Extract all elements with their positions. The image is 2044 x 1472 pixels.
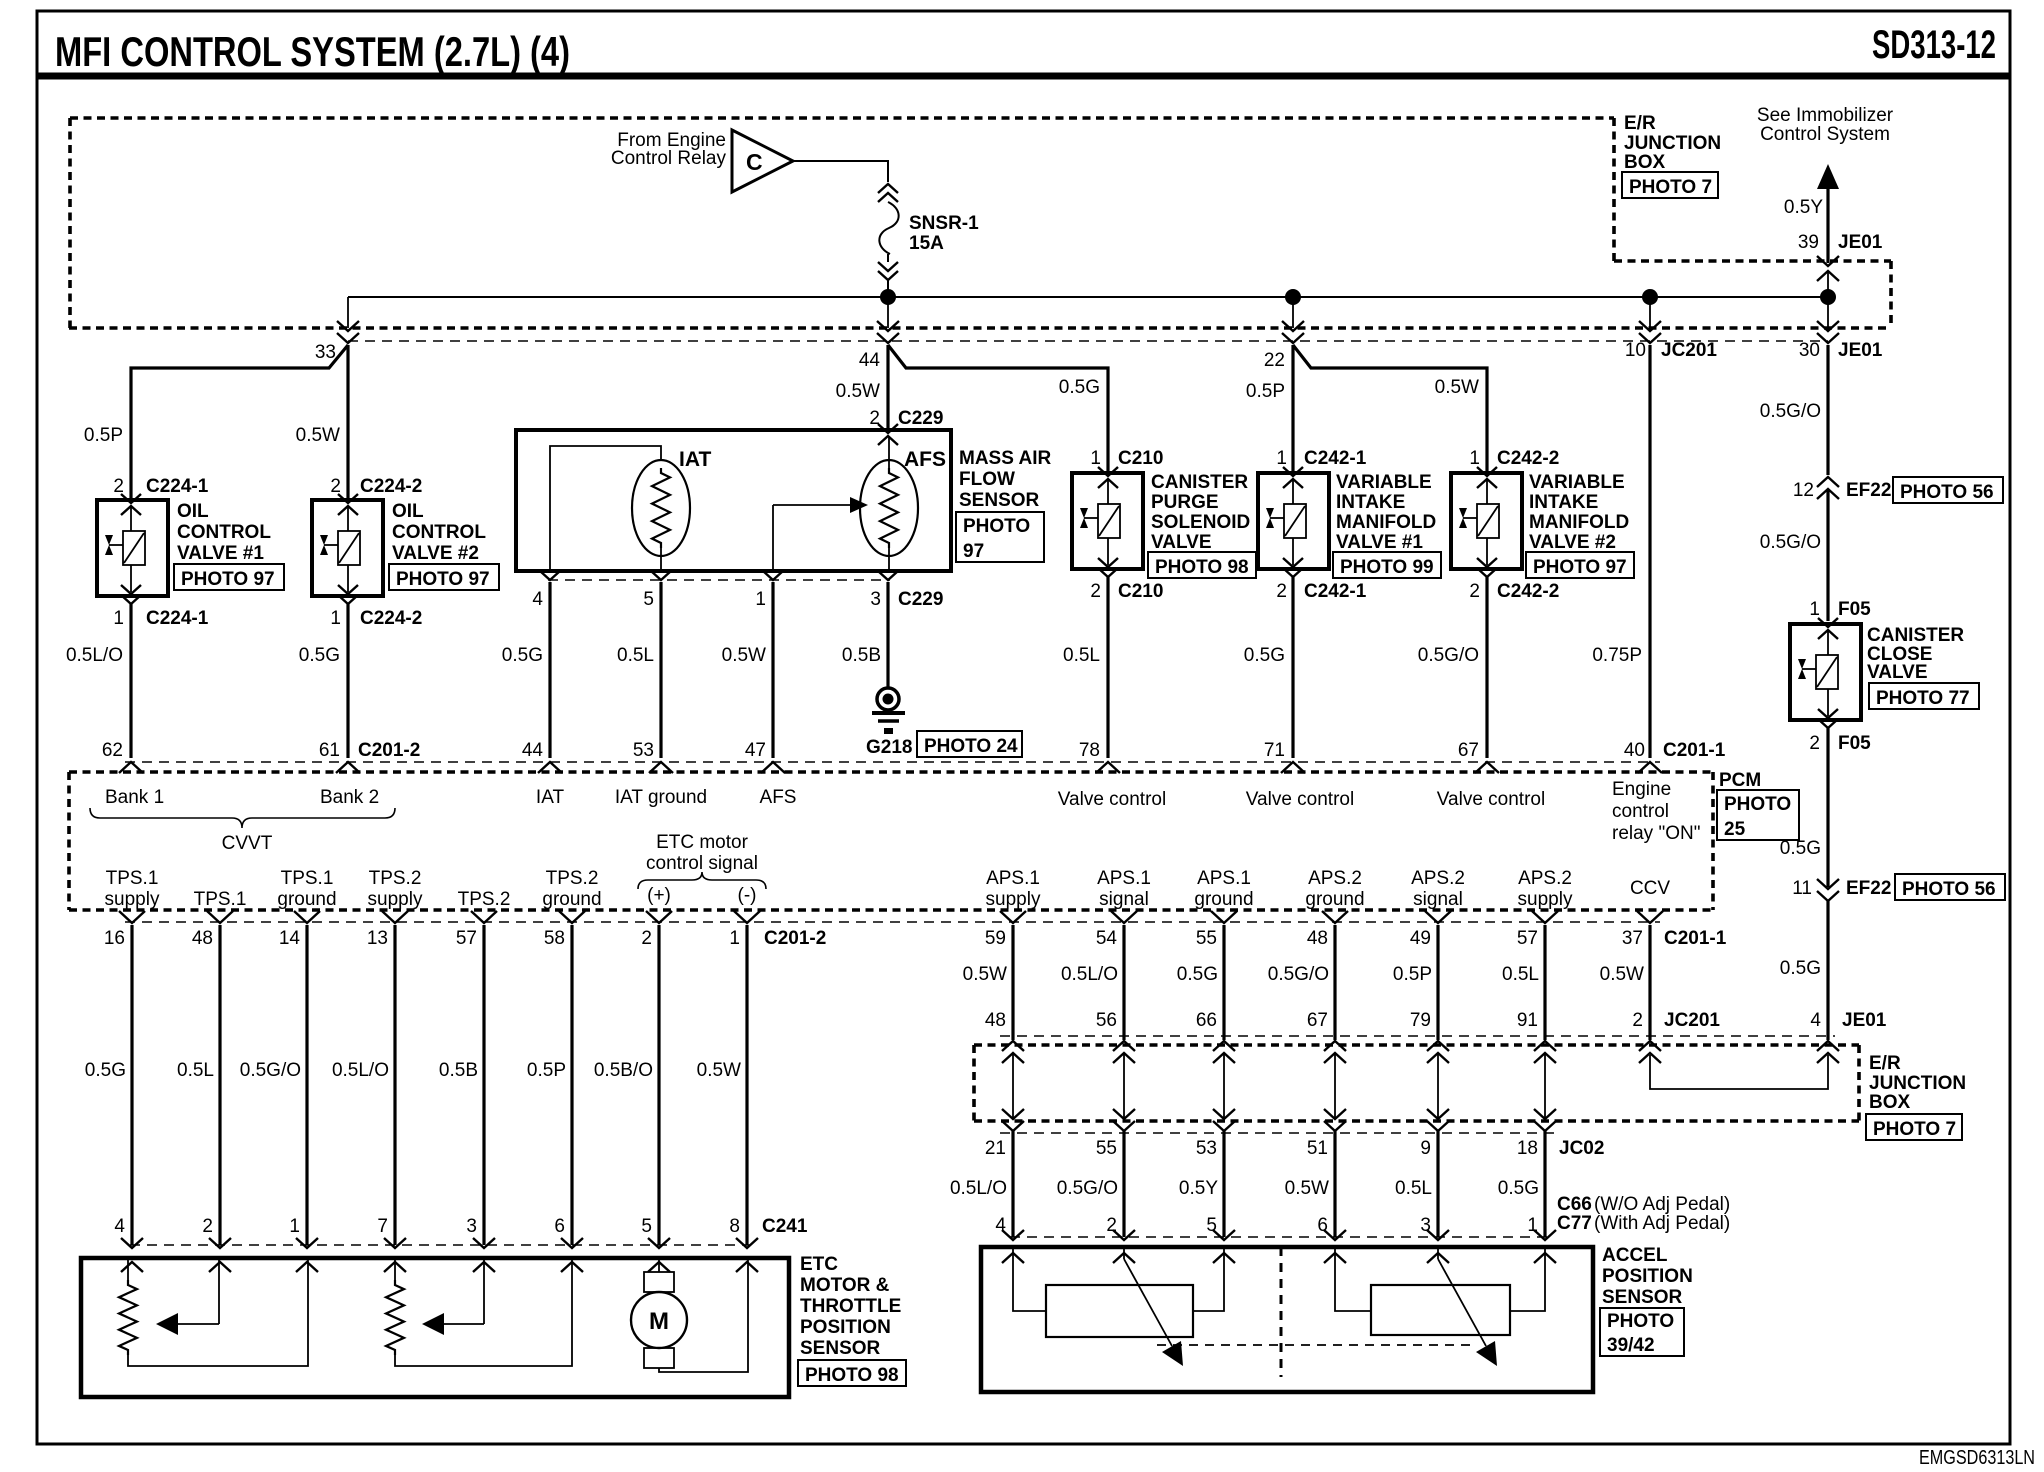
wire bus drop 33	[347, 297, 349, 328]
svg-text:79: 79	[1410, 1010, 1431, 1031]
connector EF22 pin11	[1817, 879, 1839, 889]
svg-text:0.5W: 0.5W	[1435, 377, 1479, 398]
wire TPS column 57 to C241-3	[482, 925, 485, 1245]
connector pedal pin 3	[1427, 1230, 1449, 1240]
connector C241 pin 8	[736, 1238, 758, 1248]
svg-text:JC02: JC02	[1559, 1138, 1604, 1159]
svg-text:JE01: JE01	[1838, 232, 1883, 253]
svg-text:(W/O Adj Pedal): (W/O Adj Pedal)	[1594, 1194, 1730, 1215]
svg-text:58: 58	[544, 928, 565, 949]
wire TPS column 1 to C241-8	[745, 925, 748, 1245]
bus wire	[348, 296, 1828, 298]
svg-text:F05: F05	[1838, 599, 1871, 620]
connector PCM pin 53	[649, 762, 673, 773]
svg-text:MOTOR &: MOTOR &	[800, 1275, 890, 1296]
svg-text:CONTROL: CONTROL	[177, 522, 271, 543]
connector PCM pin 71	[1281, 762, 1305, 773]
accel track link dashed	[1157, 1344, 1474, 1346]
connector PCM pin 67	[1475, 762, 1499, 773]
connector C201-1 pin 57	[1532, 911, 1558, 923]
svg-text:PHOTO 99: PHOTO 99	[1340, 557, 1434, 578]
svg-text:0.5Y: 0.5Y	[1784, 197, 1823, 218]
connector C201-2 pin 58	[559, 911, 585, 923]
svg-text:C224-1: C224-1	[146, 608, 209, 629]
svg-text:0.5W: 0.5W	[963, 964, 1007, 985]
dashed box left edge	[68, 118, 72, 328]
connector C241 pin 3	[473, 1238, 495, 1248]
connector PCM pin 61	[336, 762, 360, 773]
ETC motor M	[658, 1258, 660, 1272]
svg-text:C224-2: C224-2	[360, 608, 422, 629]
PCM bottom connector thin dashed	[125, 921, 1660, 923]
svg-text:ETC motor: ETC motor	[656, 832, 749, 853]
svg-text:SENSOR: SENSOR	[959, 490, 1040, 511]
wire TPS column 13 to C241-7	[393, 925, 396, 1245]
svg-text:PHOTO 98: PHOTO 98	[1155, 557, 1249, 578]
svg-text:67: 67	[1307, 1010, 1328, 1031]
svg-text:C210: C210	[1118, 581, 1163, 602]
svg-text:PHOTO 24: PHOTO 24	[924, 736, 1018, 757]
svg-text:THROTTLE: THROTTLE	[800, 1296, 901, 1317]
svg-text:71: 71	[1264, 740, 1285, 761]
svg-text:1: 1	[755, 589, 766, 610]
connector MAF pin3	[878, 571, 898, 580]
wire OCV1 to PCM 62	[129, 604, 132, 758]
connector C201-2 pin 16	[119, 911, 145, 923]
E/R box bottom edge (JC02 row)	[974, 1119, 1859, 1123]
svg-text:VALVE #1: VALVE #1	[1336, 532, 1423, 553]
label PHOTO 98 (CPSV)	[1148, 552, 1256, 578]
connector C201-2 pin 1	[734, 911, 760, 923]
connector pedal pin 2	[1113, 1230, 1135, 1240]
svg-text:CVVT: CVVT	[222, 833, 273, 854]
svg-text:2: 2	[1469, 581, 1480, 602]
connector C201-1 pin 37	[1637, 911, 1663, 923]
svg-text:C201-2: C201-2	[764, 928, 826, 949]
svg-text:C224-2: C224-2	[360, 476, 422, 497]
svg-text:0.5L: 0.5L	[177, 1060, 214, 1081]
svg-text:ground: ground	[542, 889, 601, 910]
svg-text:OIL: OIL	[392, 501, 424, 522]
wire through E/R box col 18	[1544, 1053, 1546, 1119]
connector C241 pin 7	[384, 1238, 406, 1248]
E/R box left edge	[972, 1045, 976, 1121]
svg-text:PHOTO 56: PHOTO 56	[1900, 482, 1994, 503]
svg-text:supply: supply	[1518, 889, 1573, 910]
label PHOTO 77 (CCV)	[1869, 683, 1979, 709]
connector PCM pin 78	[1096, 762, 1120, 773]
svg-text:C210: C210	[1118, 448, 1163, 469]
svg-text:VALVE #2: VALVE #2	[392, 543, 479, 564]
JC02 row thin dashed	[1000, 1132, 1560, 1134]
svg-text:POSITION: POSITION	[800, 1317, 891, 1338]
label PHOTO 7 (top)	[1622, 172, 1718, 198]
wire APS column 49 to JC201-79	[1436, 925, 1439, 1040]
wire TPS column 2 to C241-5	[657, 925, 660, 1245]
connector EF22 pin12	[1817, 477, 1839, 487]
svg-text:ACCEL: ACCEL	[1602, 1245, 1668, 1266]
dashed box notch vertical	[1889, 261, 1893, 328]
connector JC201 pin 66	[1213, 1041, 1235, 1051]
svg-text:59: 59	[985, 928, 1006, 949]
svg-text:1: 1	[330, 608, 341, 629]
svg-text:C229: C229	[898, 589, 943, 610]
svg-text:16: 16	[104, 928, 125, 949]
svg-text:IAT ground: IAT ground	[615, 787, 707, 808]
svg-text:1: 1	[729, 928, 740, 949]
svg-text:0.5L: 0.5L	[1063, 645, 1100, 666]
svg-text:30: 30	[1799, 340, 1820, 361]
connector PCM pin 62	[119, 762, 143, 773]
svg-text:56: 56	[1096, 1010, 1117, 1031]
svg-text:control signal: control signal	[646, 853, 758, 874]
svg-text:25: 25	[1724, 819, 1746, 840]
svg-text:POSITION: POSITION	[1602, 1266, 1693, 1287]
svg-text:13: 13	[367, 928, 388, 949]
wire EF22-11 to JE01-4	[1826, 901, 1829, 1040]
svg-text:M: M	[649, 1308, 669, 1335]
connector JC02 pin 18	[1534, 1109, 1556, 1119]
svg-text:39/42: 39/42	[1607, 1335, 1655, 1356]
svg-text:11: 11	[1792, 878, 1812, 899]
svg-text:VALVE: VALVE	[1867, 662, 1928, 683]
wire through E/R box col 51	[1334, 1053, 1336, 1119]
svg-text:1: 1	[1090, 448, 1101, 469]
svg-text:MANIFOLD: MANIFOLD	[1336, 512, 1436, 533]
svg-text:0.5Y: 0.5Y	[1179, 1178, 1218, 1199]
canister purge solenoid valve	[1072, 473, 1143, 569]
svg-text:0.5G: 0.5G	[502, 645, 543, 666]
svg-text:supply: supply	[105, 889, 160, 910]
svg-text:Valve control: Valve control	[1437, 789, 1545, 810]
label PHOTO 25 (PCM)	[1717, 790, 1799, 840]
svg-text:VALVE: VALVE	[1151, 532, 1212, 553]
svg-text:C77: C77	[1557, 1213, 1592, 1234]
wire JC02-55 to pedal sensor	[1122, 1131, 1125, 1237]
svg-text:61: 61	[319, 740, 340, 761]
svg-text:APS.1: APS.1	[986, 868, 1040, 889]
svg-text:AFS: AFS	[904, 448, 946, 471]
svg-text:signal: signal	[1099, 889, 1149, 910]
title underline bar	[37, 73, 2010, 80]
wire IAT ground to PCM 53	[659, 582, 662, 758]
svg-text:PURGE: PURGE	[1151, 492, 1219, 513]
svg-text:G218: G218	[866, 737, 912, 758]
svg-text:4: 4	[1810, 1010, 1821, 1031]
svg-text:SOLENOID: SOLENOID	[1151, 512, 1250, 533]
svg-text:49: 49	[1410, 928, 1431, 949]
svg-text:2: 2	[641, 928, 652, 949]
svg-text:0.5W: 0.5W	[722, 645, 766, 666]
label PHOTO 56 (EF22-12)	[1893, 477, 2003, 503]
svg-text:(With Adj Pedal): (With Adj Pedal)	[1594, 1213, 1730, 1234]
wire 33 branch left	[131, 345, 348, 500]
TPS.1 wiper arrow	[218, 1258, 220, 1324]
canister close valve	[1790, 624, 1861, 720]
svg-text:TPS.1: TPS.1	[194, 889, 247, 910]
svg-text:0.5G/O: 0.5G/O	[1268, 964, 1329, 985]
svg-text:PHOTO 97: PHOTO 97	[181, 569, 275, 590]
svg-text:C242-1: C242-1	[1304, 448, 1367, 469]
svg-text:PHOTO 98: PHOTO 98	[805, 1365, 899, 1386]
wire OCV2 to PCM 61	[346, 604, 349, 758]
APS.2 wiper arrow	[1437, 1247, 1439, 1259]
label PHOTO 97 (MAF)	[956, 512, 1044, 562]
junction dot at AFS feed	[880, 289, 896, 305]
svg-text:CCV: CCV	[1630, 878, 1670, 899]
wire bus drop JC201-10	[1649, 297, 1651, 328]
svg-text:PHOTO 7: PHOTO 7	[1629, 177, 1712, 198]
ground G218 symbol	[877, 688, 899, 710]
svg-text:0.5G: 0.5G	[1059, 377, 1100, 398]
svg-text:MASS AIR: MASS AIR	[959, 448, 1051, 469]
label PHOTO 99 (VIM1)	[1333, 552, 1441, 578]
svg-text:0.5P: 0.5P	[1246, 381, 1285, 402]
svg-text:3: 3	[870, 589, 881, 610]
wire TPS column 58 to C241-6	[570, 925, 573, 1245]
label PHOTO 7 (middle)	[1866, 1114, 1962, 1140]
connector JC02 pin 21	[1002, 1109, 1024, 1119]
connector PCM pin 44	[538, 762, 562, 773]
wire JE01-39 to bus	[1827, 271, 1829, 297]
svg-text:2: 2	[202, 1216, 213, 1237]
connector 39 JE01	[1817, 256, 1839, 266]
svg-text:Valve control: Valve control	[1058, 789, 1166, 810]
relay output triangle C	[732, 130, 793, 192]
connector C241 pin 2	[209, 1238, 231, 1248]
svg-text:37: 37	[1622, 928, 1643, 949]
svg-text:VARIABLE: VARIABLE	[1336, 472, 1432, 493]
wire bus drop 22	[1292, 297, 1294, 328]
svg-text:Bank 2: Bank 2	[320, 787, 379, 808]
label PHOTO 97 (OCV1)	[174, 564, 284, 590]
arrow to immobilizer	[1817, 164, 1839, 189]
svg-text:C242-1: C242-1	[1304, 581, 1367, 602]
svg-text:CONTROL: CONTROL	[392, 522, 486, 543]
svg-text:EF22: EF22	[1846, 878, 1891, 899]
oil control valve #1	[97, 500, 168, 596]
wire through E/R box col 55	[1123, 1053, 1125, 1119]
svg-text:12: 12	[1793, 480, 1814, 501]
wire through E/R box col 9	[1437, 1053, 1439, 1119]
wire through E/R box col 53	[1223, 1053, 1225, 1119]
svg-text:PHOTO 7: PHOTO 7	[1873, 1119, 1956, 1140]
svg-text:22: 22	[1264, 350, 1285, 371]
wire bus drop JE01-30	[1827, 297, 1829, 328]
wire 44 jog to C210	[888, 345, 1108, 473]
svg-text:55: 55	[1096, 1138, 1117, 1159]
svg-text:JC201: JC201	[1664, 1010, 1720, 1031]
svg-text:57: 57	[456, 928, 477, 949]
svg-text:0.5P: 0.5P	[84, 425, 123, 446]
svg-text:TPS.2: TPS.2	[546, 868, 599, 889]
label PHOTO 97 (OCV2)	[389, 564, 499, 590]
wire EF22-12 to F05	[1826, 489, 1829, 621]
svg-text:0.5G: 0.5G	[1498, 1178, 1539, 1199]
connector pedal pin 5	[1213, 1230, 1235, 1240]
wire JC201-10 to PCM 40	[1648, 345, 1651, 758]
svg-text:supply: supply	[986, 889, 1041, 910]
connector MAF pin1	[763, 571, 783, 580]
svg-text:2: 2	[1090, 581, 1101, 602]
svg-text:55: 55	[1196, 928, 1217, 949]
wire 22 jog to C242-2	[1293, 345, 1487, 473]
wire TPS column 48 to C241-2	[218, 925, 221, 1245]
connector C201-2 pin 48	[207, 911, 233, 923]
connector C201-1 pin 55	[1211, 911, 1237, 923]
wire AFS shield to ground	[886, 582, 889, 687]
wire JC02-53 to pedal sensor	[1222, 1131, 1225, 1237]
svg-text:2: 2	[1809, 733, 1820, 754]
connector C201-2 pin 57	[471, 911, 497, 923]
JC201 row thin dashed	[1000, 1035, 1835, 1037]
svg-text:0.5L/O: 0.5L/O	[1061, 964, 1118, 985]
connector JC201 pin 2	[1639, 1041, 1661, 1051]
svg-text:97: 97	[963, 541, 984, 562]
svg-text:15A: 15A	[909, 233, 944, 254]
svg-text:APS.2: APS.2	[1518, 868, 1572, 889]
svg-text:JE01: JE01	[1838, 340, 1883, 361]
svg-text:C229: C229	[898, 408, 943, 429]
wire bus drop 44	[887, 297, 889, 328]
TPS.2 resistor	[386, 1280, 404, 1355]
svg-text:C241: C241	[762, 1216, 808, 1237]
variable intake manifold valve #2	[1451, 473, 1522, 569]
svg-text:47: 47	[745, 740, 766, 761]
svg-text:5: 5	[643, 589, 654, 610]
APS.2 element	[1371, 1285, 1510, 1335]
wire 44 down to MAF pin2	[886, 345, 889, 430]
svg-text:JE01: JE01	[1842, 1010, 1887, 1031]
dashed box notch horizontal	[1614, 259, 1891, 263]
svg-text:TPS.1: TPS.1	[106, 868, 159, 889]
connector pedal pin 6	[1324, 1230, 1346, 1240]
connector C241 pin 1	[296, 1238, 318, 1248]
svg-text:0.5P: 0.5P	[1393, 964, 1432, 985]
dashed box top edge	[70, 116, 1614, 120]
wire JE01-30 down to EF22	[1826, 345, 1829, 475]
svg-text:0.5W: 0.5W	[1285, 1178, 1329, 1199]
svg-text:IAT: IAT	[679, 448, 711, 471]
svg-text:EMGSD6313LN: EMGSD6313LN	[1919, 1447, 2035, 1469]
connector 33	[337, 321, 359, 331]
connector JC201 pin 48	[1002, 1041, 1024, 1051]
svg-text:62: 62	[102, 740, 123, 761]
connector MAF pin2	[878, 424, 898, 433]
svg-text:0.5G: 0.5G	[1780, 958, 1821, 979]
svg-text:PHOTO: PHOTO	[963, 516, 1030, 537]
wire TPS column 16 to C241-4	[130, 925, 133, 1245]
wire APS column 55 to JC201-66	[1222, 925, 1225, 1040]
label PHOTO 39/42	[1600, 1308, 1684, 1356]
svg-text:APS.2: APS.2	[1411, 868, 1465, 889]
svg-text:INTAKE: INTAKE	[1336, 492, 1405, 513]
svg-text:0.5W: 0.5W	[296, 425, 340, 446]
svg-text:0.5G: 0.5G	[1177, 964, 1218, 985]
svg-text:53: 53	[1196, 1138, 1217, 1159]
svg-text:91: 91	[1517, 1010, 1538, 1031]
svg-text:33: 33	[315, 342, 336, 363]
TPS.2 wiper arrow	[483, 1258, 485, 1324]
svg-text:4: 4	[114, 1216, 125, 1237]
svg-text:44: 44	[522, 740, 544, 761]
svg-text:0.5G: 0.5G	[85, 1060, 126, 1081]
svg-text:JUNCTION: JUNCTION	[1869, 1073, 1966, 1094]
wire APS column 57 to JC201-91	[1543, 925, 1546, 1040]
svg-text:48: 48	[192, 928, 213, 949]
E/R box right edge	[1857, 1045, 1861, 1121]
svg-text:0.5W: 0.5W	[697, 1060, 741, 1081]
fuse SNSR-1 element	[879, 202, 898, 254]
svg-text:CANISTER: CANISTER	[1151, 472, 1248, 493]
svg-text:VALVE #1: VALVE #1	[177, 543, 264, 564]
label PHOTO 97 (VIM2)	[1526, 552, 1634, 578]
svg-text:1: 1	[1809, 599, 1820, 620]
connector row thin dashed line	[348, 340, 1828, 342]
svg-text:1: 1	[113, 608, 124, 629]
APS.1 wiper arrow	[1123, 1247, 1125, 1259]
connector C241 pin 6	[561, 1238, 583, 1248]
svg-text:Bank 1: Bank 1	[105, 787, 164, 808]
svg-text:54: 54	[1096, 928, 1118, 949]
svg-text:8: 8	[729, 1216, 740, 1237]
svg-text:0.5G/O: 0.5G/O	[1057, 1178, 1118, 1199]
svg-text:0.5W: 0.5W	[836, 381, 880, 402]
connector C201-1 pin 54	[1111, 911, 1137, 923]
wire relay to fuse	[793, 161, 888, 182]
svg-text:C66: C66	[1557, 1194, 1592, 1215]
connector C201-2 pin 13	[382, 911, 408, 923]
svg-text:ETC: ETC	[800, 1254, 838, 1275]
fuse SNSR-1 arrows top	[878, 184, 898, 193]
PCM box bottom edge	[69, 908, 1713, 912]
oil control valve #2	[312, 500, 383, 596]
svg-text:14: 14	[279, 928, 301, 949]
svg-text:SD313-12: SD313-12	[1872, 23, 1996, 67]
svg-text:C: C	[746, 149, 763, 175]
svg-text:67: 67	[1458, 740, 1479, 761]
svg-text:0.75P: 0.75P	[1592, 645, 1642, 666]
svg-text:PHOTO 97: PHOTO 97	[1533, 557, 1627, 578]
svg-text:0.5B: 0.5B	[842, 645, 881, 666]
svg-text:0.5G/O: 0.5G/O	[1760, 532, 1821, 553]
dashed box right edge upper	[1612, 118, 1616, 261]
svg-text:Valve control: Valve control	[1246, 789, 1354, 810]
svg-text:C224-1: C224-1	[146, 476, 209, 497]
connector C241 pin 4	[121, 1238, 143, 1248]
mass air flow sensor box	[516, 430, 951, 571]
ETC motor & throttle position sensor box	[81, 1258, 789, 1397]
wire MAF internal pin4	[550, 446, 661, 571]
wire APS column 37 to JC201-2	[1648, 925, 1651, 1040]
svg-text:48: 48	[1307, 928, 1328, 949]
svg-text:(-): (-)	[738, 885, 757, 906]
svg-text:0.5L: 0.5L	[617, 645, 654, 666]
svg-text:SNSR-1: SNSR-1	[909, 213, 979, 234]
svg-text:0.5L/O: 0.5L/O	[950, 1178, 1007, 1199]
svg-text:APS.1: APS.1	[1197, 868, 1251, 889]
connector C201-1 pin 59	[1000, 911, 1026, 923]
wire TPS column 14 to C241-1	[305, 925, 308, 1245]
connector JC201 pin 79	[1427, 1041, 1449, 1051]
connector MAF pin4	[540, 571, 560, 580]
svg-text:PHOTO 56: PHOTO 56	[1902, 879, 1996, 900]
wire 33 down to OCV2	[346, 345, 349, 500]
connector PCM pin 40	[1638, 762, 1662, 773]
svg-text:21: 21	[985, 1138, 1006, 1159]
svg-text:signal: signal	[1413, 889, 1463, 910]
svg-text:66: 66	[1196, 1010, 1217, 1031]
